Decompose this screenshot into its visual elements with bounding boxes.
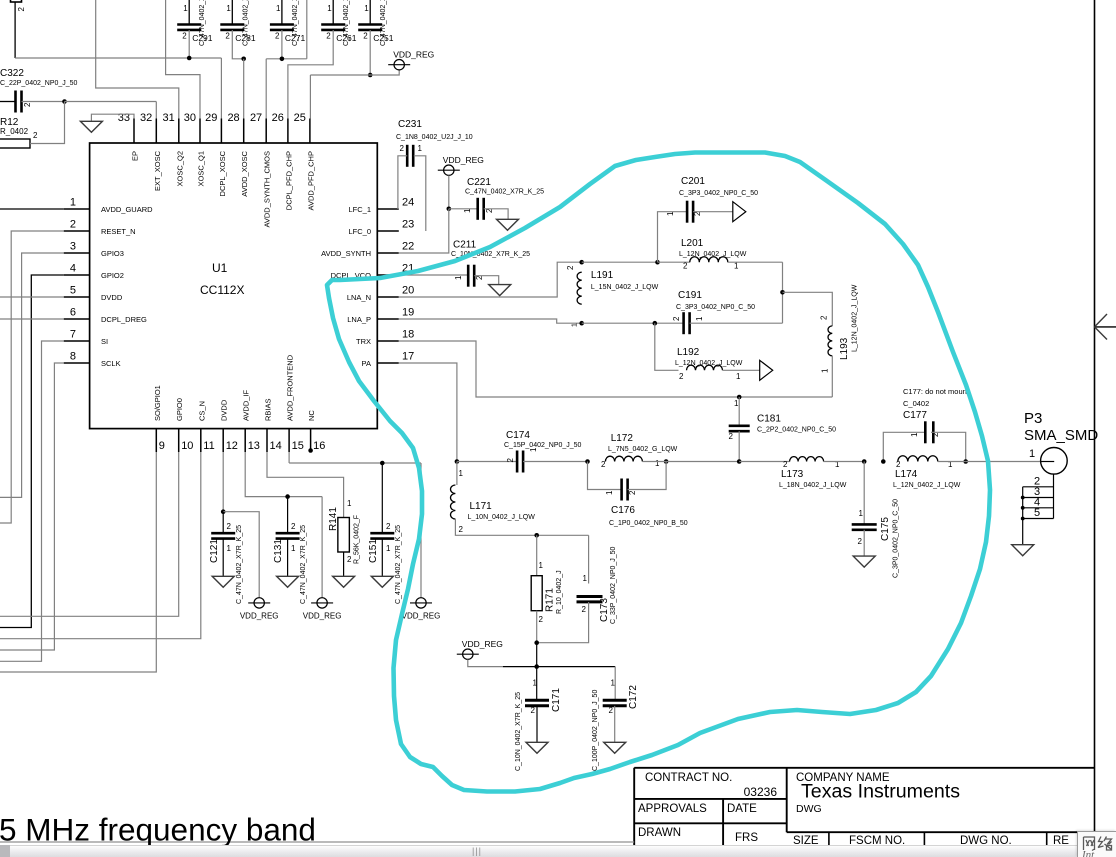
- wire VDD_REG elbow: [468, 659, 503, 666]
- wire pin 4 route: [0, 275, 64, 628]
- capacitor C176: [620, 479, 623, 501]
- svg-text:DRAWN: DRAWN: [638, 827, 681, 839]
- svg-text:DWG: DWG: [796, 803, 822, 815]
- svg-text:L172: L172: [611, 433, 634, 444]
- svg-text:2: 2: [896, 460, 901, 469]
- svg-text:1: 1: [226, 4, 231, 13]
- wire rail XOSC net y58: [15, 57, 221, 59]
- wire down to pin 27: [265, 59, 267, 119]
- node R171/C173: [534, 640, 539, 645]
- wire C211 to ground: [474, 276, 499, 285]
- svg-text:LFC_1: LFC_1: [348, 205, 371, 214]
- svg-text:VDD_REG: VDD_REG: [462, 639, 503, 649]
- svg-text:AVDD_PFD_CHP: AVDD_PFD_CHP: [306, 151, 315, 210]
- svg-text:8: 8: [70, 351, 76, 363]
- svg-text:27: 27: [250, 112, 262, 124]
- pin 23 stub (LFC_0): [377, 230, 399, 232]
- sheet frame bottom border: [0, 841, 634, 843]
- wire C177 left bracket: [883, 432, 925, 461]
- svg-text:2: 2: [820, 315, 829, 320]
- wire L201 to right rail: [728, 261, 783, 263]
- svg-text:1: 1: [347, 499, 352, 508]
- wire C191 to right rail: [690, 322, 783, 324]
- wire P3 shield left bus: [1022, 487, 1024, 545]
- node P3 pin5: [1021, 517, 1025, 521]
- svg-text:1: 1: [291, 544, 296, 553]
- pin 11 stub (CS_N): [200, 429, 202, 452]
- wire to P3: [966, 461, 1041, 463]
- pin 2 P3: [1023, 486, 1054, 488]
- svg-text:PA: PA: [362, 359, 371, 368]
- wire pin 11 route: [0, 452, 201, 639]
- svg-text:2: 2: [33, 131, 38, 140]
- tooltip popup (network): [1077, 831, 1116, 857]
- wire rail LNA_P: [582, 322, 684, 324]
- capacitor C191: [682, 312, 685, 334]
- wire C271 bottom: [281, 30, 283, 59]
- svg-text:1: 1: [364, 4, 369, 13]
- svg-text:SO/GPIO1: SO/GPIO1: [153, 385, 162, 421]
- wire LNA_P pin 19 to rail: [399, 319, 582, 323]
- svg-text:12: 12: [226, 440, 238, 452]
- svg-text:19: 19: [402, 307, 414, 319]
- node L172 left: [585, 459, 590, 464]
- ground (C131): [277, 576, 299, 587]
- svg-text:C_47N_0402_X7R_K_25: C_47N_0402_X7R_K_25: [380, 0, 387, 46]
- wire down to pin 32 stub: [155, 102, 157, 119]
- svg-text:EP: EP: [131, 151, 140, 161]
- svg-text:L193: L193: [839, 337, 850, 360]
- power VDD_REG (C131): [311, 602, 333, 604]
- capacitor C172: [603, 699, 627, 702]
- svg-text:L_18N_0402_J_LQW: L_18N_0402_J_LQW: [779, 482, 847, 489]
- svg-text:L192: L192: [677, 347, 700, 358]
- svg-text:C_47N_0402_X7R_K_25: C_47N_0402_X7R_K_25: [343, 0, 350, 46]
- svg-text:C221: C221: [467, 177, 491, 188]
- pin 18 stub (TRX): [377, 340, 399, 342]
- wire C322 right lead: [22, 101, 65, 103]
- svg-text:1: 1: [859, 509, 864, 518]
- svg-text:XOSC_Q2: XOSC_Q2: [175, 151, 184, 186]
- svg-text:VDD_REG: VDD_REG: [393, 50, 434, 60]
- wire rail to L201: [658, 261, 690, 263]
- ground (C171): [526, 742, 548, 753]
- wire C172 top lead: [614, 667, 616, 701]
- pin 2 stub (RESET_N): [64, 230, 90, 232]
- svg-text:C181: C181: [757, 414, 781, 425]
- pin 27 stub (AVDD_SYNTH_CMOS): [265, 119, 267, 144]
- wire C322 left lead: [0, 101, 16, 103]
- svg-text:5: 5: [70, 285, 76, 297]
- wire C173 top lead: [588, 535, 590, 583]
- wire R171 top lead: [536, 535, 538, 575]
- op-amp U1 body CC112X: [90, 143, 378, 429]
- pin 4 stub (GPIO2): [64, 274, 90, 276]
- pin 20 stub (LNA_N): [377, 296, 399, 298]
- svg-text:C_47N_0402_X7R_K_25: C_47N_0402_X7R_K_25: [395, 525, 402, 604]
- svg-text:LNA_P: LNA_P: [347, 315, 371, 324]
- cyan hand-drawn highlight loop around RF section: [327, 153, 990, 792]
- wire TRX pin 18 rail: [399, 341, 833, 397]
- svg-text:2: 2: [539, 615, 544, 624]
- wire pin 5 to left edge: [0, 296, 64, 298]
- svg-text:2: 2: [182, 32, 187, 41]
- svg-text:AVDD_SYNTH_CMOS: AVDD_SYNTH_CMOS: [263, 151, 272, 228]
- power VDD_REG (PA bias): [457, 653, 479, 655]
- svg-text:1: 1: [529, 447, 538, 452]
- wire R171 bottom lead: [536, 611, 538, 643]
- svg-text:1: 1: [910, 432, 919, 437]
- horizontal scrollbar: [0, 845, 1116, 857]
- svg-text:2: 2: [225, 32, 230, 41]
- svg-text:XOSC_Q1: XOSC_Q1: [197, 151, 206, 186]
- wire C121 bottom lead: [222, 539, 224, 577]
- wire pin 7 route: [0, 341, 64, 661]
- capacitor C131: [276, 532, 300, 535]
- pin 9 stub (SO/GPIO1): [155, 429, 157, 452]
- svg-text:C211: C211: [453, 240, 477, 251]
- pin 22 stub (AVDD_SYNTH): [377, 252, 399, 254]
- node L191 bottom: [579, 321, 584, 326]
- pin 1 stub (AVDD_GUARD): [64, 208, 90, 210]
- svg-text:GPIO3: GPIO3: [101, 249, 124, 258]
- wire up to C201: [658, 212, 688, 263]
- ground (C175): [853, 556, 875, 567]
- pin 30 stub (XOSC_Q1): [199, 119, 201, 144]
- pin 32 stub (EXT_XOSC): [155, 119, 157, 144]
- wire R141 bottom lead: [343, 552, 345, 576]
- wire C281 to pin 28: [232, 30, 243, 59]
- wire down to VDD node: [536, 643, 538, 667]
- svg-text:AVDD_FRONTEND: AVDD_FRONTEND: [286, 354, 295, 421]
- svg-text:1: 1: [1029, 448, 1035, 460]
- pin 8 stub (SCLK): [64, 362, 90, 364]
- capacitor C271: [281, 0, 283, 25]
- capacitor C322: [14, 91, 17, 113]
- svg-text:C231: C231: [398, 119, 422, 130]
- svg-text:C176: C176: [611, 505, 635, 516]
- wire C271 net up off-sheet: [306, 0, 308, 59]
- svg-text:R_10_0402_J: R_10_0402_J: [556, 570, 563, 614]
- node C281/pin28: [241, 57, 246, 62]
- ground (P3): [1012, 545, 1034, 556]
- node C251/VDD rail: [368, 73, 373, 78]
- node L174 right: [963, 459, 968, 464]
- svg-text:L191: L191: [591, 270, 614, 281]
- svg-text:C177: C177: [903, 410, 927, 421]
- svg-text:C151: C151: [368, 539, 379, 563]
- svg-text:2: 2: [17, 7, 26, 12]
- svg-text:C_47N_0402_X7R_K_25: C_47N_0402_X7R_K_25: [465, 189, 544, 196]
- wire C171 top lead: [536, 667, 538, 701]
- wire top-left resistor lead down: [14, 2, 16, 58]
- svg-text:C_47N_0402_X7R_K_25: C_47N_0402_X7R_K_25: [199, 0, 206, 46]
- node R171 top: [534, 533, 539, 538]
- pin 3 P3: [1023, 497, 1054, 499]
- scrollbar grip: [472, 847, 486, 855]
- svg-text:13: 13: [248, 440, 260, 452]
- wire C177 right bracket: [931, 432, 966, 461]
- capacitor C231: [406, 145, 409, 167]
- capacitor C211: [467, 265, 470, 287]
- svg-text:AVDD_XOSC: AVDD_XOSC: [240, 150, 249, 196]
- node L191 top: [579, 260, 584, 265]
- svg-text:L173: L173: [781, 469, 804, 480]
- svg-text:24: 24: [402, 197, 414, 209]
- wire C131 bottom lead: [287, 539, 289, 577]
- svg-text:C_47N_0402_X7R_K_25: C_47N_0402_X7R_K_25: [292, 0, 299, 46]
- wire LNA_N pin 20 to rail: [399, 262, 582, 297]
- svg-text:RBIAS: RBIAS: [264, 398, 273, 421]
- node C271: [280, 57, 285, 62]
- svg-text:C_10N_0402_X7R_K_25: C_10N_0402_X7R_K_25: [515, 692, 522, 771]
- wire to C174: [457, 461, 517, 463]
- svg-text:AVDD_SYNTH: AVDD_SYNTH: [321, 249, 371, 258]
- node L172 right: [664, 459, 669, 464]
- svg-text:C_47N_0402_X7R_K_25: C_47N_0402_X7R_K_25: [300, 525, 307, 604]
- svg-text:1: 1: [533, 679, 538, 688]
- svg-text:SI: SI: [101, 337, 108, 346]
- svg-text:2: 2: [506, 457, 515, 462]
- svg-text:2: 2: [459, 525, 464, 534]
- node C291 on rail: [187, 56, 192, 61]
- wire C291 bottom: [188, 30, 190, 58]
- pin 26 stub (DCPL_PFD_CHP): [287, 119, 289, 144]
- resistor R12: [0, 139, 30, 148]
- svg-text:2: 2: [628, 490, 637, 495]
- svg-text:DVDD: DVDD: [101, 293, 123, 302]
- svg-text:APPROVALS: APPROVALS: [638, 803, 707, 815]
- wire C175 top lead: [863, 462, 865, 525]
- svg-text:1: 1: [539, 561, 544, 570]
- wire to L173: [739, 461, 789, 463]
- wire C251 bottom: [369, 30, 371, 75]
- node DVDD/C121: [221, 509, 226, 514]
- svg-text:2: 2: [672, 316, 681, 321]
- svg-text:C177: do not mount: C177: do not mount: [903, 387, 970, 396]
- connector P3 SMA_SMD: [1041, 448, 1068, 475]
- svg-text:C_3P3_0402_NP0_C_50: C_3P3_0402_NP0_C_50: [679, 190, 758, 197]
- capacitor C174: [516, 451, 519, 473]
- off-page arrow into frame: [1095, 326, 1116, 328]
- svg-text:L201: L201: [681, 238, 704, 249]
- svg-text:1: 1: [734, 399, 739, 408]
- svg-text:L_12N_0402_J_LQW: L_12N_0402_J_LQW: [893, 482, 961, 489]
- pin 29 stub (DCPL_XOSC): [220, 119, 222, 144]
- ground (EP): [80, 121, 102, 132]
- wire down to L192: [655, 323, 679, 370]
- svg-text:1: 1: [459, 469, 464, 478]
- node P3 pin4: [1021, 506, 1025, 510]
- svg-text:U1: U1: [212, 261, 228, 275]
- pin 10 stub (GPIO0): [178, 429, 180, 452]
- wire C201 to off-page: [693, 211, 733, 213]
- wire pin 14 to R141: [267, 452, 344, 518]
- svg-text:1: 1: [183, 4, 188, 13]
- wire C173 bottom to node: [537, 602, 589, 643]
- svg-text:C_22P_0402_NP0_J_50: C_22P_0402_NP0_J_50: [0, 80, 78, 87]
- pin 21 stub (DCPL_VCO): [377, 274, 399, 276]
- ground (R141): [333, 576, 355, 587]
- svg-text:1: 1: [327, 4, 332, 13]
- svg-text:2: 2: [729, 432, 734, 441]
- svg-text:R_0402: R_0402: [0, 127, 29, 136]
- wire C151 top lead: [381, 463, 383, 533]
- capacitor C171: [525, 699, 549, 702]
- svg-text:22: 22: [402, 241, 414, 253]
- svg-text:4: 4: [70, 263, 76, 275]
- wire pin 33 EP to ground: [91, 114, 134, 121]
- svg-text:6: 6: [70, 307, 76, 319]
- svg-text:C_100P_0402_NP0_J_50: C_100P_0402_NP0_J_50: [592, 690, 599, 771]
- svg-text:2: 2: [70, 219, 76, 231]
- off-page connector (L192): [760, 360, 773, 380]
- wire C174 to L172: [523, 461, 587, 463]
- svg-text:L_15N_0402_J_LQW: L_15N_0402_J_LQW: [591, 284, 659, 291]
- wire to VDD_REG 2: [321, 497, 323, 598]
- svg-text:C_3P3_0402_NP0_C_50: C_3P3_0402_NP0_C_50: [676, 304, 755, 311]
- wire pin 6 to left edge: [0, 318, 64, 320]
- pin 12 stub (DVDD): [222, 429, 224, 452]
- svg-text:DCPL_PFD_CHP: DCPL_PFD_CHP: [284, 151, 293, 210]
- node C171 tap: [534, 664, 539, 669]
- node C181 top: [737, 395, 742, 400]
- pin 25 stub (AVDD_PFD_CHP): [309, 119, 311, 144]
- node L192 branch: [653, 321, 658, 326]
- svg-text:16: 16: [313, 440, 325, 452]
- wire C271 jog: [266, 58, 307, 60]
- svg-text:1: 1: [386, 544, 391, 553]
- svg-text:Texas Instruments: Texas Instruments: [801, 781, 960, 803]
- svg-text:L_12N_0402_J_LQW: L_12N_0402_J_LQW: [852, 284, 859, 352]
- pin 19 stub (LNA_P): [377, 318, 399, 320]
- svg-text:VDD_REG: VDD_REG: [240, 611, 279, 620]
- svg-text:SCLK: SCLK: [101, 359, 121, 368]
- node TRX tap: [780, 290, 785, 295]
- svg-text:L174: L174: [895, 469, 918, 480]
- svg-text:P3: P3: [1024, 410, 1042, 427]
- pin 3 stub (GPIO3): [64, 252, 90, 254]
- svg-text:20: 20: [402, 285, 414, 297]
- svg-text:C_1N8_0402_U2J_J_10: C_1N8_0402_U2J_J_10: [396, 134, 473, 141]
- svg-text:1: 1: [666, 211, 675, 216]
- pin 7 stub (SI): [64, 340, 90, 342]
- capacitor C177: [924, 421, 927, 443]
- svg-text:2: 2: [326, 32, 331, 41]
- pin 16 stub (NC): [310, 429, 312, 452]
- svg-text:1: 1: [454, 275, 463, 280]
- svg-text:3: 3: [70, 241, 76, 253]
- wire pin 15 down: [288, 452, 290, 463]
- svg-text:EXT_XOSC: EXT_XOSC: [153, 150, 162, 191]
- capacitor C201: [686, 201, 689, 223]
- title block: [634, 767, 1094, 769]
- svg-text:VDD_REG: VDD_REG: [303, 611, 342, 620]
- wire to VDD_REG 3: [420, 463, 422, 598]
- resistor (top-left, partially off-sheet): [11, 0, 22, 2]
- svg-text:11: 11: [203, 440, 214, 452]
- pin 5 P3: [1023, 518, 1054, 520]
- ground (C211): [489, 285, 511, 296]
- node C322/R12/EXT_XOSC junction: [62, 99, 67, 104]
- pin 17 stub (PA): [377, 362, 399, 364]
- wire C172 bottom lead: [614, 706, 616, 742]
- svg-text:1: 1: [463, 208, 472, 213]
- svg-text:17: 17: [402, 351, 414, 363]
- pin 15 stub (AVDD_FRONTEND): [288, 429, 290, 452]
- svg-text:C_47N_0402_X7R_K_25: C_47N_0402_X7R_K_25: [236, 525, 243, 604]
- svg-text:1: 1: [572, 323, 579, 327]
- svg-text:9: 9: [159, 440, 165, 452]
- ground (C121): [212, 576, 234, 587]
- ground (C221): [497, 219, 519, 230]
- svg-text:C201: C201: [681, 176, 705, 187]
- pin 4 P3: [1023, 507, 1054, 509]
- svg-text:15: 15: [292, 440, 304, 452]
- svg-text:DCPL_DREG: DCPL_DREG: [101, 315, 147, 324]
- wire to C221: [449, 208, 478, 210]
- pin 31 stub (XOSC_Q2): [178, 119, 180, 144]
- svg-text:29: 29: [205, 112, 217, 124]
- wire L171 bottom rail: [455, 519, 588, 535]
- wire pin 1 to left edge: [0, 208, 64, 210]
- wire junction to pin 32: [65, 101, 157, 103]
- svg-text:NC: NC: [307, 410, 316, 421]
- power VDD_REG (top): [388, 64, 410, 66]
- svg-text:2: 2: [783, 460, 788, 469]
- svg-text:RESET_N: RESET_N: [101, 227, 136, 236]
- svg-text:25: 25: [294, 112, 306, 124]
- svg-text:L_10N_0402_J_LQW: L_10N_0402_J_LQW: [468, 514, 536, 521]
- svg-text:C322: C322: [0, 68, 24, 79]
- svg-text:AVDD_GUARD: AVDD_GUARD: [101, 205, 153, 214]
- svg-text:1: 1: [70, 197, 76, 209]
- capacitor C261: [332, 0, 334, 25]
- svg-text:2: 2: [679, 372, 684, 381]
- power VDD_REG (C121): [248, 602, 270, 604]
- svg-text:2: 2: [227, 522, 232, 531]
- wire pin 12 down: [222, 452, 224, 512]
- svg-text:R141: R141: [328, 507, 339, 531]
- pin 33 stub (EP): [133, 119, 135, 144]
- svg-text:C191: C191: [678, 290, 702, 301]
- capacitor C251: [369, 0, 371, 25]
- node AVDD_SYNTH/C221: [447, 207, 452, 212]
- svg-text:30: 30: [184, 112, 196, 124]
- svg-text:18: 18: [402, 329, 414, 341]
- wire right rail L201/C191: [782, 262, 784, 323]
- wire P3 pin1 tick: [1041, 461, 1054, 463]
- svg-text:C175: C175: [880, 517, 891, 541]
- svg-text:10: 10: [181, 440, 193, 452]
- svg-text:DCPL_XOSC: DCPL_XOSC: [218, 150, 227, 196]
- svg-text:C174: C174: [506, 430, 530, 441]
- wire C181 top lead: [738, 397, 740, 426]
- svg-text:2: 2: [363, 32, 368, 41]
- wire C171 bottom lead: [536, 706, 538, 742]
- svg-text:1: 1: [734, 262, 739, 271]
- svg-text:2: 2: [386, 522, 391, 531]
- svg-text:LNA_N: LNA_N: [347, 293, 371, 302]
- svg-text:C_2P2_0402_NP0_C_50: C_2P2_0402_NP0_C_50: [757, 427, 836, 434]
- svg-text:2: 2: [291, 522, 296, 531]
- wire C131 top lead: [287, 497, 289, 534]
- wire pin 30 feeder from top: [166, 0, 200, 119]
- wire C261 to pin 26: [288, 30, 333, 119]
- svg-text:28: 28: [227, 112, 239, 124]
- wire VDD_REG net to pin 22: [399, 209, 449, 253]
- wire VDD rail to pin 25: [310, 70, 399, 75]
